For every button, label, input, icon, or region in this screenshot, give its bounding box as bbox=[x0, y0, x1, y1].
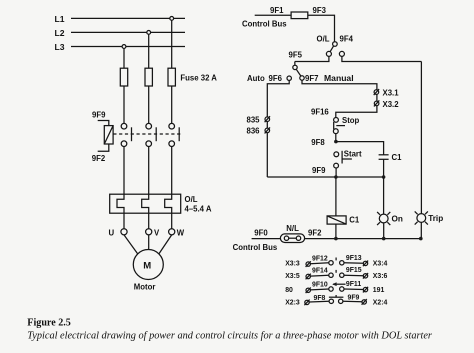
wire L2 phase line bbox=[71, 31, 185, 33]
overload heater element 2 bbox=[142, 194, 149, 213]
svg-text:9F10: 9F10 bbox=[312, 282, 328, 289]
node tap L2 bbox=[147, 31, 151, 35]
svg-text:L1: L1 bbox=[55, 14, 65, 24]
svg-text:X3:3: X3:3 bbox=[285, 261, 300, 268]
node 9F8 junction bbox=[311, 138, 337, 147]
wire start to junction line bbox=[335, 168, 337, 177]
svg-text:80: 80 bbox=[285, 287, 293, 294]
wire to coil C1 bbox=[335, 177, 337, 216]
wire overload to terminal U bbox=[123, 213, 125, 229]
wire L2 drop to fuse 2 bbox=[148, 34, 150, 68]
svg-text:Start: Start bbox=[344, 149, 362, 158]
svg-text:9F0: 9F0 bbox=[254, 228, 268, 237]
coil C1 bbox=[327, 216, 360, 225]
svg-text:X3.2: X3.2 bbox=[383, 100, 400, 109]
wire pole3 to overload bbox=[171, 147, 173, 195]
svg-text:Typical electrical drawing of: Typical electrical drawing of power and … bbox=[27, 330, 433, 341]
svg-text:C1: C1 bbox=[349, 216, 360, 225]
svg-text:O/L: O/L bbox=[185, 195, 198, 204]
wire overload to terminal W bbox=[171, 213, 173, 229]
contactor C1 main pole 1 bbox=[121, 123, 131, 146]
svg-text:X3:5: X3:5 bbox=[285, 273, 300, 280]
selector contact 9F7 Manual bbox=[300, 73, 354, 83]
wire U to motor bbox=[124, 235, 138, 254]
svg-text:L2: L2 bbox=[55, 28, 65, 38]
wire W to motor bbox=[159, 235, 172, 254]
svg-text:U: U bbox=[109, 228, 115, 237]
svg-text:N/L: N/L bbox=[286, 224, 299, 233]
wire capacitor to junction bbox=[383, 159, 385, 177]
wire Trip lamp to bus bbox=[420, 222, 422, 238]
svg-text:9F3: 9F3 bbox=[313, 6, 327, 15]
svg-text:9F2: 9F2 bbox=[92, 154, 106, 163]
aux contact row 1 X3:3 9F12 9F13 X3:4 bbox=[285, 255, 387, 268]
fuse F1 pole1 bbox=[120, 68, 127, 86]
terminal 836 bbox=[247, 127, 271, 136]
svg-text:C1: C1 bbox=[392, 153, 403, 162]
node 9F16 bbox=[311, 108, 329, 117]
node junction lamp bbox=[382, 175, 386, 179]
wire auto branch to left rail bbox=[267, 80, 289, 177]
svg-text:Auto: Auto bbox=[247, 74, 265, 83]
wire coil to bus bbox=[335, 224, 337, 239]
wire fuse1 to contactor bbox=[123, 86, 125, 123]
overload heater element 1 bbox=[117, 194, 124, 213]
wire V to motor bbox=[148, 235, 150, 250]
svg-text:W: W bbox=[177, 228, 185, 237]
wire fuse2 to contactor bbox=[148, 86, 150, 123]
svg-text:4–5.4 A: 4–5.4 A bbox=[185, 204, 212, 213]
svg-text:9F8: 9F8 bbox=[311, 138, 325, 147]
coil operator 9F9/9F2 bbox=[92, 111, 113, 163]
aux contact row 2 X3:5 9F14 9F15 X3:6 bbox=[285, 267, 387, 280]
svg-text:Control Bus: Control Bus bbox=[242, 20, 287, 29]
node bus-On junction bbox=[382, 237, 386, 241]
wire stop to node 9F8 bbox=[335, 134, 337, 142]
svg-text:9F12: 9F12 bbox=[312, 255, 328, 262]
node 9F9 bbox=[312, 166, 326, 175]
lamp Trip bbox=[415, 211, 444, 224]
node tap L3 bbox=[122, 45, 126, 49]
wire L3 phase line bbox=[71, 46, 185, 48]
lamp On bbox=[377, 212, 403, 225]
node bus-Trip junction bbox=[419, 237, 423, 241]
terminal 835 bbox=[247, 116, 271, 125]
node 9F0 bbox=[254, 228, 268, 237]
svg-text:Manual: Manual bbox=[324, 73, 354, 83]
fuse control circuit bbox=[291, 12, 308, 19]
wire L3 drop to fuse 1 bbox=[123, 48, 125, 68]
wire O/L NC to selector 9F5 bbox=[289, 51, 329, 62]
terminal V bbox=[146, 228, 160, 237]
wire mechanical linkage dashed bbox=[113, 133, 181, 135]
node tap L1 bbox=[170, 17, 174, 21]
wire to On lamp bbox=[383, 177, 385, 214]
svg-text:O/L: O/L bbox=[317, 35, 330, 44]
wire pole1 to overload bbox=[123, 147, 125, 195]
wire L1 drop to fuse 3 bbox=[171, 20, 173, 68]
terminal X3.2 bbox=[374, 100, 399, 109]
terminal U bbox=[109, 228, 128, 237]
svg-text:Control Bus: Control Bus bbox=[233, 243, 278, 252]
neutral link N/L bbox=[280, 224, 304, 243]
svg-text:Stop: Stop bbox=[342, 116, 360, 125]
wire to capacitor branch bbox=[336, 142, 384, 155]
fuse F3 pole3 Fuse 32 A bbox=[168, 68, 217, 86]
svg-text:9F6: 9F6 bbox=[269, 74, 283, 83]
wire fuse3 to contactor bbox=[171, 86, 173, 123]
control bus top 9F1 bbox=[242, 6, 287, 29]
wire manual branch bbox=[302, 80, 377, 117]
svg-text:9F15: 9F15 bbox=[346, 267, 362, 274]
svg-text:9F2: 9F2 bbox=[308, 229, 322, 238]
wire L1 phase line bbox=[71, 17, 185, 19]
svg-text:9F4: 9F4 bbox=[340, 35, 354, 44]
svg-text:9F11: 9F11 bbox=[346, 281, 361, 288]
wire control bus to fuse bbox=[255, 14, 291, 16]
svg-text:X2:3: X2:3 bbox=[285, 299, 300, 306]
svg-text:9F5: 9F5 bbox=[289, 51, 303, 60]
aux contact row 3 80 9F10 9F11 191 bbox=[285, 281, 384, 294]
node 9F2 bbox=[308, 229, 322, 238]
selector auto/manual common bbox=[293, 62, 301, 77]
svg-text:Figure 2.5: Figure 2.5 bbox=[27, 318, 71, 329]
wire bottom control bus left bbox=[252, 238, 281, 240]
pushbutton Start NO bbox=[334, 149, 362, 168]
svg-text:9F13: 9F13 bbox=[346, 255, 362, 262]
capacitor C1 bbox=[379, 153, 403, 162]
wire overload to terminal V bbox=[148, 213, 150, 229]
svg-text:On: On bbox=[392, 215, 403, 224]
wire right trip rail bbox=[420, 62, 422, 215]
node bus-coil junction bbox=[334, 237, 338, 241]
wire fuse to O/L contact bbox=[308, 15, 335, 42]
svg-text:V: V bbox=[154, 228, 160, 237]
svg-text:9F9: 9F9 bbox=[348, 294, 360, 301]
svg-text:9F1: 9F1 bbox=[270, 6, 284, 15]
svg-text:835: 835 bbox=[247, 116, 261, 125]
svg-text:Motor: Motor bbox=[134, 283, 156, 292]
svg-text:9F9: 9F9 bbox=[312, 166, 326, 175]
caption italic bbox=[27, 330, 433, 341]
svg-text:9F9: 9F9 bbox=[92, 111, 106, 120]
fuse F2 pole2 bbox=[145, 68, 152, 86]
overload heater element 3 bbox=[165, 194, 172, 213]
wire O/L NO to trip rail bbox=[342, 56, 422, 61]
O/L trip contact 9F4 changeover bbox=[317, 35, 354, 57]
node junction coil bbox=[334, 175, 338, 179]
overload relay O/L 4-5.4 A box bbox=[110, 194, 212, 213]
node L3 bbox=[55, 42, 65, 52]
label control bus bottom bbox=[233, 243, 278, 252]
svg-text:X3:6: X3:6 bbox=[373, 273, 388, 280]
svg-text:836: 836 bbox=[247, 127, 261, 136]
terminal W bbox=[169, 228, 185, 237]
contactor C1 main pole 2 bbox=[146, 123, 156, 146]
svg-text:Fuse 32 A: Fuse 32 A bbox=[180, 73, 217, 82]
caption Figure 2.5 bbox=[27, 318, 71, 329]
node L2 bbox=[55, 28, 65, 38]
aux contact row 4 X2:3 9F8 9F9 X2:4 bbox=[285, 294, 387, 306]
wire pole2 to overload bbox=[148, 147, 150, 195]
svg-text:191: 191 bbox=[373, 287, 385, 294]
svg-text:X3.1: X3.1 bbox=[383, 89, 400, 98]
motor M bbox=[133, 250, 163, 292]
svg-text:9F7: 9F7 bbox=[305, 74, 318, 83]
node 9F3 bbox=[313, 6, 327, 15]
svg-text:X3:4: X3:4 bbox=[373, 261, 388, 268]
selector contact Auto 9F6 bbox=[247, 74, 291, 83]
svg-text:X2:4: X2:4 bbox=[373, 299, 388, 306]
terminal X3.1 bbox=[374, 89, 400, 98]
svg-text:L3: L3 bbox=[55, 42, 65, 52]
svg-text:9F14: 9F14 bbox=[312, 268, 328, 275]
pushbutton Stop NC bbox=[333, 116, 359, 134]
svg-text:Trip: Trip bbox=[428, 214, 443, 223]
wire bottom control bus right bbox=[305, 238, 421, 240]
svg-text:9F16: 9F16 bbox=[311, 108, 329, 117]
svg-text:9F8: 9F8 bbox=[314, 295, 326, 302]
node L1 bbox=[55, 14, 65, 24]
wire On lamp to bus bbox=[383, 223, 385, 239]
wire junction row y177 bbox=[267, 176, 383, 178]
contactor C1 main pole 3 bbox=[169, 123, 179, 146]
svg-text:M: M bbox=[143, 260, 151, 271]
